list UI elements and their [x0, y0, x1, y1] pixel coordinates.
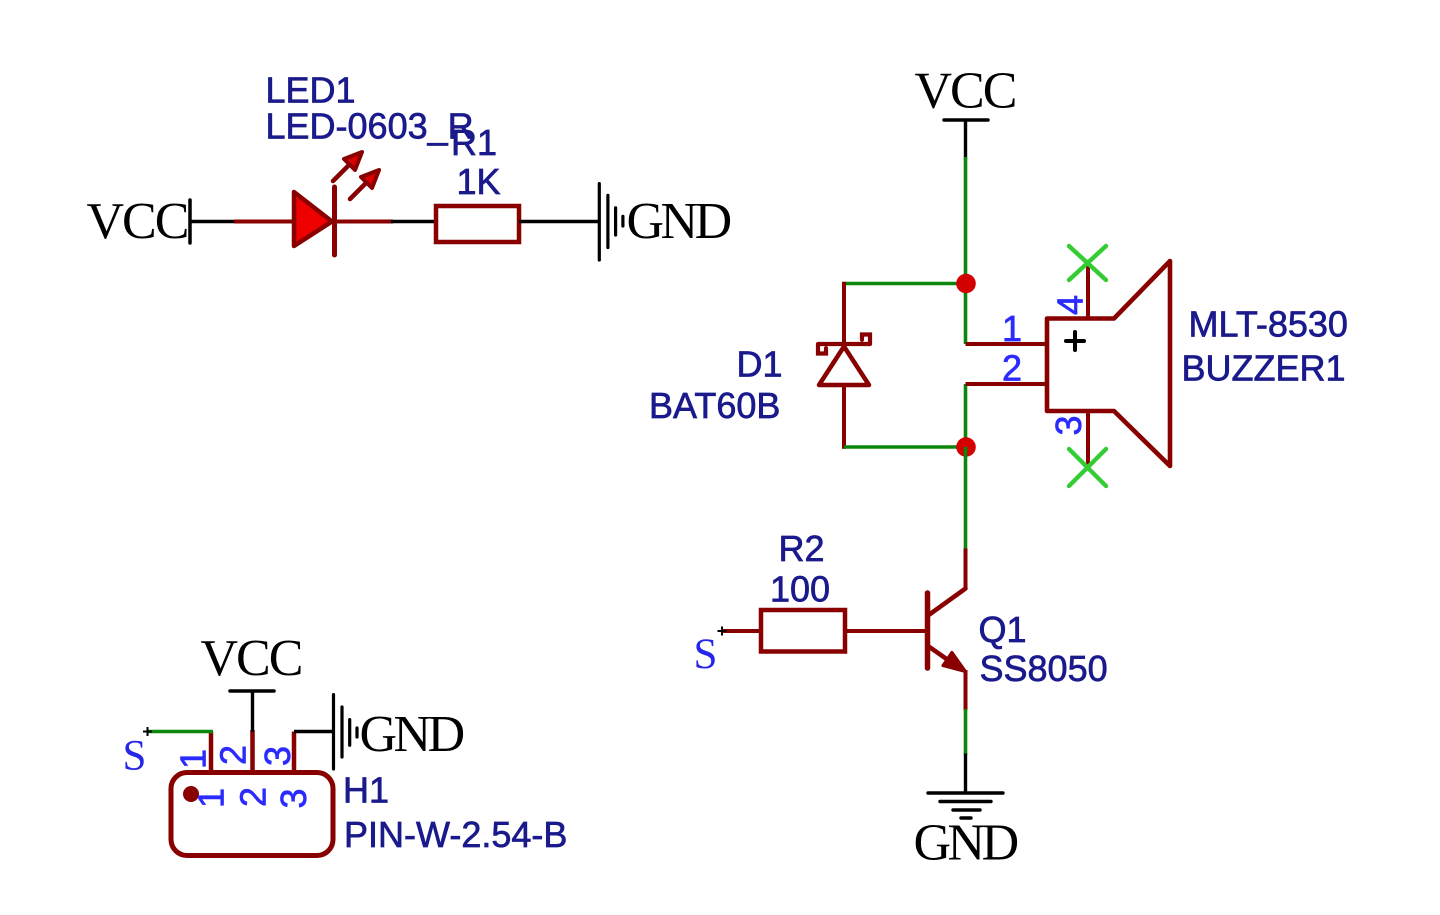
svg-text:BAT60B: BAT60B — [649, 385, 780, 426]
pin wire H1 pin 2 (dark red) — [250, 730, 255, 773]
no-connect flag pin 3 — [1069, 449, 1106, 486]
buzzer sub-circuit — [649, 63, 1348, 872]
svg-text:GND: GND — [627, 193, 731, 250]
LED LED1 emission arrow 2 — [350, 170, 379, 199]
LED LED1 cathode bar — [332, 187, 337, 255]
svg-text:1K: 1K — [457, 161, 501, 202]
connector H1 body — [171, 773, 333, 856]
wire junction A to buzzer pin 1 (green) — [964, 284, 968, 345]
svg-text:S: S — [694, 631, 718, 678]
pin wire R2 left (dark red) — [722, 629, 761, 633]
svg-text:1: 1 — [173, 749, 214, 769]
svg-text:Q1: Q1 — [979, 609, 1027, 650]
buzzer BUZZER1 body — [1047, 261, 1170, 466]
pin wire buzzer pin 2 (dark red) — [966, 382, 1048, 386]
wire Q1 emitter to GND (green) — [964, 709, 968, 755]
wire LED1 to R1 (black) — [391, 220, 436, 223]
wire VCC to LED1 anode (black) — [190, 220, 236, 223]
LED sub-circuit — [87, 70, 731, 261]
svg-text:D1: D1 — [737, 344, 783, 385]
pin wire H1 pin 3 (dark red) — [292, 732, 297, 773]
LED LED1 emission arrow 1 — [333, 152, 362, 181]
svg-text:4: 4 — [1050, 295, 1091, 315]
pin wire LED1 anode (dark red) — [234, 220, 295, 224]
wire R1 to GND (black) — [519, 220, 598, 223]
junction B — [956, 437, 976, 457]
unconnected pin cross at S — [718, 627, 727, 636]
junction A — [956, 274, 976, 294]
ground GND (header) — [334, 695, 464, 769]
svg-text:VCC: VCC — [87, 193, 188, 250]
pin wire D1 cathode (dark red) — [842, 282, 846, 348]
svg-text:3: 3 — [257, 746, 298, 766]
pin wire D1 anode (dark red) — [842, 385, 846, 449]
pin wire H1 pin 1 (dark red) — [209, 732, 214, 773]
wire D1 anode to junction B (green) — [844, 445, 966, 449]
svg-text:1: 1 — [191, 788, 232, 808]
resistor R1 body — [436, 206, 519, 242]
svg-text:GND: GND — [914, 815, 1018, 872]
svg-text:2: 2 — [233, 787, 274, 807]
power flag VCC (header) — [201, 630, 302, 732]
wire pin 3 to GND (black) — [294, 730, 334, 733]
diode D1 schottky cathode bar — [818, 335, 870, 354]
LED LED1 triangle — [294, 192, 332, 246]
buzzer polarity plus sign — [1066, 332, 1084, 350]
svg-text:VCC: VCC — [915, 63, 1016, 120]
pin wire buzzer pin 3 (dark red) — [1086, 411, 1090, 467]
transistor Q1 base bar — [925, 593, 931, 668]
ground GND (earth symbol) — [914, 793, 1018, 872]
pin wire R2 right to Q1 base (dark red) — [845, 629, 925, 633]
transistor Q1 collector lead — [928, 589, 966, 616]
ground GND (LED branch) — [599, 184, 730, 260]
svg-text:GND: GND — [360, 706, 464, 763]
svg-text:1: 1 — [1002, 308, 1022, 349]
power flag VCC (top) — [915, 63, 1016, 160]
svg-text:3: 3 — [273, 788, 314, 808]
wire VCC to junction A (green) — [964, 157, 968, 284]
pin wire Q1 collector (dark red) — [964, 549, 968, 590]
svg-text:PIN-W-2.54-B: PIN-W-2.54-B — [344, 814, 567, 855]
unconnected pin cross at S — [143, 727, 152, 736]
diode D1 triangle — [819, 347, 869, 386]
transistor Q1 emitter lead — [928, 646, 958, 667]
pin wire buzzer pin 4 (dark red) — [1086, 263, 1090, 319]
wire to ground (black) — [964, 754, 967, 794]
svg-text:3: 3 — [1048, 415, 1089, 435]
pin wire Q1 emitter (dark red) — [964, 670, 968, 711]
svg-text:2: 2 — [1002, 348, 1022, 389]
transistor Q1 emitter arrowhead — [943, 652, 966, 671]
svg-text:100: 100 — [770, 569, 830, 610]
wire S to pin 1 (green) — [148, 730, 214, 734]
svg-text:VCC: VCC — [201, 630, 302, 687]
svg-text:SS8050: SS8050 — [980, 648, 1108, 689]
wire junction B to Q1 collector (green) — [964, 447, 968, 550]
svg-text:R1: R1 — [451, 122, 497, 163]
connector H1 pin-1 dot — [183, 786, 199, 802]
no-connect flag pin 4 — [1069, 246, 1106, 280]
wire junction A to D1 cathode (green) — [844, 282, 966, 286]
wire buzzer pin 2 to junction B (green) — [964, 384, 968, 447]
svg-text:LED1: LED1 — [266, 70, 356, 111]
pin wire LED1 cathode (dark red) — [335, 220, 394, 224]
svg-text:LED-0603_R: LED-0603_R — [266, 106, 474, 147]
power flag VCC (LED branch) — [87, 193, 191, 250]
resistor R2 body — [761, 610, 845, 652]
svg-text:H1: H1 — [343, 770, 389, 811]
svg-text:BUZZER1: BUZZER1 — [1182, 348, 1346, 389]
svg-text:R2: R2 — [779, 528, 825, 569]
header sub-circuit — [123, 630, 568, 856]
svg-text:S: S — [123, 733, 147, 780]
pin wire buzzer pin 1 (dark red) — [966, 342, 1048, 346]
svg-text:MLT-8530: MLT-8530 — [1189, 304, 1348, 345]
svg-text:2: 2 — [213, 745, 254, 765]
